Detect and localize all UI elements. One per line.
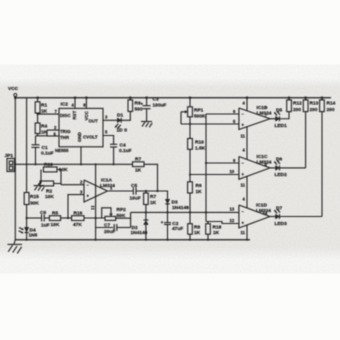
wire DISC — [38, 113, 59, 115]
svg-text:1.5K: 1.5K — [195, 146, 206, 152]
svg-text:R15: R15 — [30, 194, 39, 200]
svg-text:0.1uF: 0.1uF — [41, 151, 54, 157]
wire R16 to RP2 — [84, 217, 105, 219]
resistor R9 — [128, 100, 143, 113]
capacitor C7 — [96, 223, 131, 235]
svg-text:R13: R13 — [310, 101, 319, 107]
wire LED1 to R12 — [280, 112, 290, 119]
resistor R18 — [206, 224, 222, 236]
diode D2 — [131, 220, 149, 236]
wire R6 to node — [189, 193, 191, 212]
svg-text:R2: R2 — [46, 189, 52, 195]
resistor R4 — [35, 123, 47, 136]
wire D2 to rail — [145, 225, 147, 240]
svg-text:IC1B: IC1B — [257, 105, 268, 111]
svg-text:30K: 30K — [30, 201, 39, 207]
wire R7 bottom to D2 — [145, 191, 147, 193]
wire opamp power column — [246, 98, 248, 111]
resistor R1 — [35, 102, 47, 115]
svg-text:12: 12 — [230, 218, 235, 223]
capacitor C3 — [141, 96, 167, 121]
op-amp IC1A — [80, 178, 115, 209]
wire output IC1A — [108, 190, 133, 192]
wire C6 to R5 — [44, 217, 49, 219]
wire D3 to node line — [167, 204, 169, 213]
capacitor C1 — [32, 136, 54, 165]
wire R2 right — [54, 183, 61, 185]
svg-text:10: 10 — [230, 169, 235, 174]
wire feedback vertical — [95, 164, 97, 239]
photodiode D4 — [19, 227, 38, 238]
resistor R13 — [303, 96, 318, 112]
capacitor C5 — [130, 183, 141, 202]
svg-text:R18: R18 — [213, 225, 222, 231]
wire LED3 to R14 — [280, 216, 323, 218]
svg-text:200: 200 — [327, 107, 335, 113]
svg-text:1N4148: 1N4148 — [131, 230, 148, 236]
diode D3 — [165, 199, 189, 211]
svg-text:IC1A: IC1A — [101, 178, 112, 184]
wire R4 to TRIG node — [37, 134, 39, 136]
svg-text:GND: GND — [77, 132, 82, 142]
svg-text:10K: 10K — [51, 222, 60, 228]
wire pin9 line — [206, 162, 239, 164]
svg-text:LED2: LED2 — [275, 172, 288, 178]
wire R1 to R4 — [37, 113, 39, 123]
wire TRIG/THR joint — [36, 130, 60, 136]
potentiometer RP1 — [181, 96, 206, 124]
svg-text:10uF: 10uF — [130, 196, 141, 202]
resistor R10 — [188, 139, 206, 152]
svg-text:TRIG: TRIG — [60, 129, 71, 134]
svg-text:RP1: RP1 — [194, 108, 204, 114]
svg-text:VCC: VCC — [8, 86, 19, 92]
svg-text:D6: D6 — [276, 157, 282, 163]
resistor R17 1K — [133, 157, 145, 174]
svg-text:RST: RST — [72, 110, 77, 119]
wire CVOLT pin5 — [103, 136, 114, 145]
svg-text:1N4148: 1N4148 — [172, 205, 189, 211]
svg-text:10K: 10K — [45, 194, 54, 200]
svg-text:47uF: 47uF — [172, 226, 183, 232]
wire pin12 jog — [206, 222, 239, 224]
wire R19 to pin2 node — [57, 170, 61, 185]
svg-text:11: 11 — [241, 183, 246, 188]
svg-text:D7: D7 — [276, 205, 282, 211]
resistor R5 — [49, 211, 60, 229]
svg-text:1K: 1K — [196, 189, 203, 195]
svg-text:11: 11 — [241, 230, 246, 235]
svg-text:RP2: RP2 — [117, 207, 127, 213]
svg-text:C1: C1 — [42, 145, 48, 151]
wire 555 pin4 — [74, 98, 76, 109]
capacitor C6 — [40, 210, 50, 229]
wire R8 stubs — [189, 212, 191, 223]
svg-text:D5: D5 — [276, 108, 282, 114]
resistor R16 — [72, 211, 84, 229]
svg-text:200: 200 — [310, 107, 318, 113]
wire top rail — [15, 97, 331, 99]
svg-text:DISC: DISC — [60, 113, 71, 118]
svg-text:IC1C: IC1C — [257, 154, 268, 160]
svg-text:D1: D1 — [117, 113, 123, 119]
svg-text:R7: R7 — [150, 194, 156, 200]
resistor R8 — [188, 224, 201, 236]
svg-text:500K: 500K — [194, 113, 206, 119]
wire pin3 — [68, 195, 84, 218]
capacitor C4 — [110, 143, 132, 165]
wire R15 column from rail — [26, 98, 28, 193]
svg-text:500: 500 — [135, 107, 143, 113]
svg-text:IC1D: IC1D — [256, 203, 267, 209]
svg-text:R12: R12 — [293, 101, 302, 107]
LED D5 LED1 — [274, 108, 287, 130]
wire pin2 — [61, 184, 84, 186]
wire R17 right to feedback node — [144, 164, 158, 191]
svg-text:47K: 47K — [73, 222, 82, 228]
wire RP1 bottom / pin5 line — [189, 117, 191, 139]
connector JP1 — [5, 153, 16, 172]
wire signal chain C6 line — [27, 217, 42, 219]
svg-text:C7: C7 — [104, 223, 110, 229]
svg-text:CVOLT: CVOLT — [83, 134, 98, 139]
svg-text:C5: C5 — [131, 183, 137, 189]
svg-text:R8: R8 — [194, 225, 200, 231]
ground R19 left — [34, 170, 45, 192]
wire pin6 line — [206, 113, 239, 115]
resistor R7 — [144, 193, 157, 206]
wire IC1D out — [270, 216, 276, 218]
wire C5 to D3 corner — [136, 191, 168, 199]
resistor R6 — [188, 182, 203, 195]
wire R1 column stub — [37, 98, 39, 102]
svg-text:R10: R10 — [195, 140, 204, 146]
svg-text:LED1: LED1 — [275, 123, 288, 129]
svg-text:LM324: LM324 — [100, 183, 115, 189]
svg-text:C3: C3 — [153, 97, 159, 103]
svg-text:R1: R1 — [41, 103, 47, 109]
svg-text:20uF: 20uF — [104, 229, 115, 235]
svg-text:1uF: 1uF — [41, 223, 50, 229]
wire 555 pin8 — [85, 98, 87, 109]
svg-text:0.1uF: 0.1uF — [119, 148, 132, 154]
wire pin10 line — [190, 174, 239, 176]
svg-text:R19: R19 — [44, 162, 53, 168]
svg-text:OUT: OUT — [89, 118, 99, 123]
svg-text:VCC: VCC — [84, 110, 89, 120]
svg-text:R16: R16 — [74, 211, 83, 217]
potentiometer RP2 — [102, 207, 126, 220]
svg-text:R6: R6 — [196, 183, 202, 189]
resistor R2 — [40, 181, 54, 200]
svg-text:C4: C4 — [120, 143, 126, 149]
svg-text:C6: C6 — [40, 210, 46, 216]
resistor R19 — [43, 162, 68, 173]
wire IC1B out — [270, 118, 276, 120]
wire node line — [131, 211, 239, 213]
wire R13 long vertical — [305, 112, 307, 168]
wire R9 top — [129, 98, 131, 100]
svg-text:R14: R14 — [327, 101, 336, 107]
wire R18 stubs — [207, 222, 209, 224]
svg-text:LED3: LED3 — [275, 221, 288, 227]
junction dots bottom rail — [26, 239, 28, 241]
ground main — [8, 240, 23, 254]
svg-text:1K: 1K — [135, 168, 142, 174]
ground C3 — [141, 122, 152, 128]
junction dots mid rail — [34, 163, 36, 165]
wire signal vertical — [205, 114, 207, 222]
wire OUT pin3 — [103, 119, 117, 121]
wire R14 long vertical — [321, 112, 323, 217]
wire D1 to R9 — [121, 111, 130, 120]
wire IC1C out — [270, 167, 276, 169]
op-amp IC1D — [230, 203, 272, 229]
op-amp IC1C — [230, 154, 272, 179]
resistor R15 — [24, 193, 39, 207]
svg-text:IC2: IC2 — [61, 102, 69, 108]
wire LED2 to R13 — [280, 167, 306, 169]
svg-text:1K: 1K — [150, 200, 157, 206]
wire R15 to D4 — [26, 205, 28, 228]
svg-text:THR: THR — [60, 135, 70, 140]
svg-text:14: 14 — [263, 211, 268, 216]
wire bottom rail — [15, 239, 250, 241]
wire R5 to R16 — [61, 217, 72, 219]
wire left vcc vertical — [14, 97, 16, 240]
svg-text:1K: 1K — [194, 230, 201, 236]
svg-text:R5: R5 — [52, 211, 58, 217]
wire mid rail — [15, 163, 132, 165]
wire 555 pin1 gnd — [80, 147, 82, 165]
LED D6 LED2 — [274, 157, 287, 179]
wire R10 to R6 — [189, 149, 191, 182]
capacitor C2 — [161, 212, 183, 239]
svg-text:100uF: 100uF — [153, 103, 167, 109]
wire RP2 right down — [116, 218, 131, 227]
svg-text:1N5: 1N5 — [29, 233, 38, 239]
svg-text:13: 13 — [230, 207, 235, 212]
LED D1 infrared — [115, 113, 128, 134]
svg-text:D3: D3 — [172, 200, 178, 206]
svg-text:200: 200 — [293, 107, 301, 113]
resistor R12 — [287, 96, 302, 112]
svg-text:NE555: NE555 — [55, 148, 69, 153]
VCC terminal — [8, 86, 19, 99]
op-amp IC1B — [233, 105, 272, 130]
LED D7 LED3 — [274, 205, 287, 227]
svg-text:R7: R7 — [135, 157, 141, 163]
svg-text:R4: R4 — [41, 124, 47, 130]
op-amp IC2 555 timer box — [54, 102, 109, 154]
svg-text:1K: 1K — [213, 230, 220, 236]
resistor R14 — [320, 96, 336, 112]
wire D4 to rail — [26, 233, 28, 240]
svg-text:11: 11 — [241, 134, 246, 139]
svg-text:1D S: 1D S — [117, 128, 128, 134]
